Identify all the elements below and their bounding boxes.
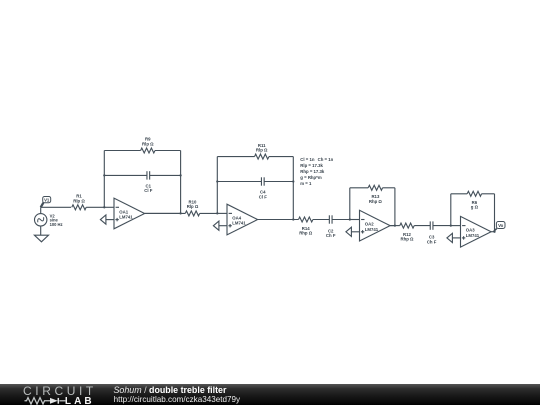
svg-text:g Ω: g Ω xyxy=(471,205,479,210)
svg-text:Cl F: Cl F xyxy=(144,188,152,193)
svg-text:Vo: Vo xyxy=(498,223,504,228)
svg-text:Rhp Ω: Rhp Ω xyxy=(401,237,415,242)
svg-text:100 Hz: 100 Hz xyxy=(50,222,63,227)
svg-text:Rhp = 17.3k: Rhp = 17.3k xyxy=(300,169,325,174)
svg-text:Rlp = 17.3k: Rlp = 17.3k xyxy=(300,163,323,168)
svg-text:Rlp Ω: Rlp Ω xyxy=(187,204,199,209)
svg-text:Rlp Ω: Rlp Ω xyxy=(256,148,268,153)
svg-text:V1: V1 xyxy=(44,198,50,203)
svg-text:Cl = 1n: Cl = 1n xyxy=(300,157,315,162)
svg-text:Rlp Ω: Rlp Ω xyxy=(73,198,85,203)
svg-text:g = Rhp*m: g = Rhp*m xyxy=(300,175,322,180)
svg-text:m = 1: m = 1 xyxy=(300,181,312,186)
svg-text:LM741: LM741 xyxy=(466,233,480,238)
svg-text:Ch F: Ch F xyxy=(427,239,437,244)
svg-text:Ch = 1n: Ch = 1n xyxy=(318,157,334,162)
svg-text:Cl F: Cl F xyxy=(259,194,267,199)
svg-text:Rlp Ω: Rlp Ω xyxy=(142,141,154,146)
svg-text:LM741: LM741 xyxy=(232,221,246,226)
svg-text:Rhp Ω: Rhp Ω xyxy=(299,230,313,235)
svg-text:LM741: LM741 xyxy=(119,215,133,220)
svg-text:LM741: LM741 xyxy=(365,227,379,232)
svg-text:Rhp Ω: Rhp Ω xyxy=(369,199,383,204)
svg-text:Ch F: Ch F xyxy=(326,233,336,238)
